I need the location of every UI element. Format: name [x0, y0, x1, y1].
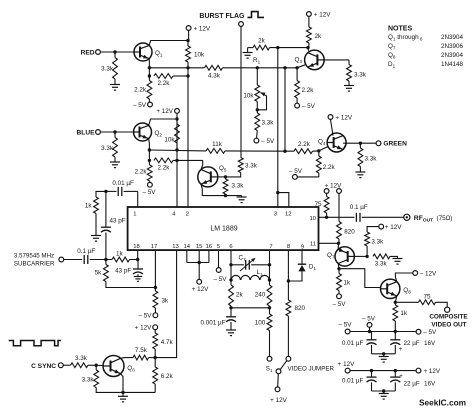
wire 10k column down to pin2	[187, 68, 189, 207]
resistor 3.3k burst to Q5	[238, 158, 243, 173]
node +12V rail cap2	[394, 369, 397, 372]
power -5V Q3	[295, 103, 300, 108]
svg-text:– 12V: – 12V	[420, 270, 437, 277]
node Q4 emitter	[359, 142, 362, 145]
svg-text:7.5k: 7.5k	[135, 347, 148, 354]
resistor 10k Q1 collector	[187, 41, 189, 47]
node tank bottom left	[229, 306, 232, 309]
capacitor 22uF -5V rail	[394, 332, 396, 340]
wire emitter bus to Q3	[223, 67, 298, 69]
svg-text:+: +	[399, 374, 403, 380]
resistor 820 to pin11	[338, 193, 340, 221]
resistor 6.2k	[154, 358, 156, 367]
wire 5k to pin17 node	[106, 282, 155, 288]
transistor Q3	[305, 50, 325, 70]
power -5V Q2	[149, 181, 151, 182]
resistor 1k vertical	[94, 197, 99, 214]
resistor 7.5k	[133, 355, 149, 360]
diode D1	[298, 263, 306, 265]
wire D1 to pin8	[288, 271, 302, 281]
svg-text:2.2k: 2.2k	[302, 87, 315, 94]
power +12V S1	[275, 387, 280, 392]
resistor 1k Q8	[394, 302, 396, 305]
resistor 3.3k below pot	[255, 113, 260, 131]
resistor 2.2k horizontal Q1	[154, 74, 173, 79]
wire L1 right column	[269, 265, 271, 285]
capacitor 0.1uF subcarrier	[64, 259, 82, 261]
wire Q3 emitter	[297, 65, 305, 68]
wire burst flag column	[240, 26, 242, 157]
node BLUE base	[113, 130, 116, 133]
wire pin16 column	[208, 250, 210, 262]
node Q5 emitter gnd line	[224, 194, 227, 197]
node pin4 column 2.2k	[175, 159, 178, 162]
svg-text:1k: 1k	[401, 310, 409, 317]
resistor 2k to +12V	[308, 16, 310, 27]
svg-text:Q1: Q1	[155, 50, 163, 58]
ground R1	[247, 48, 249, 53]
wire 3.3k to Q5 base node	[226, 173, 241, 177]
capacitor 22uF +12V rail	[394, 371, 396, 378]
svg-text:0.1 µF: 0.1 µF	[77, 248, 95, 255]
ground 1k	[95, 214, 97, 236]
svg-text:11k: 11k	[212, 141, 223, 148]
burst flag pulse symbol	[248, 12, 265, 18]
svg-text:14: 14	[184, 244, 191, 250]
capacitor 43pF pin18	[137, 260, 139, 270]
transistor Q2	[134, 123, 152, 141]
wire Q1 emitter	[148, 59, 150, 68]
wire Q5 emitter	[201, 184, 242, 195]
svg-text:2: 2	[186, 212, 189, 218]
svg-text:2.2k: 2.2k	[135, 169, 148, 176]
wire Q8 emitter	[395, 296, 397, 302]
svg-text:0.001 µF: 0.001 µF	[201, 320, 226, 327]
wire emitter bus y68	[149, 67, 204, 69]
wire pin3 column	[277, 48, 279, 207]
wire bracket pin12	[278, 193, 289, 207]
power -5V rail left	[345, 329, 350, 334]
node Q2 emitter	[148, 148, 151, 151]
wire to 1k	[96, 191, 106, 197]
wire pin6 column	[230, 250, 232, 265]
node pin11 820 Q7	[337, 242, 340, 245]
svg-text:2.2k: 2.2k	[323, 164, 336, 171]
power +12V rail left	[345, 368, 350, 373]
svg-text:+ 12V: + 12V	[156, 108, 173, 115]
wire -5V upper drop	[369, 327, 371, 331]
svg-text:BURST FLAG: BURST FLAG	[199, 13, 245, 20]
wire Q5 base	[218, 176, 226, 178]
wire Q5 collector to pin4 line	[201, 160, 203, 169]
wire Q6 collector	[121, 357, 133, 360]
wire +12V rail	[350, 370, 416, 372]
transistor Q6	[103, 356, 124, 377]
wire Q2 emitter column down	[148, 150, 150, 160]
node -5V rail cap2	[394, 330, 397, 333]
svg-text:2.2k: 2.2k	[134, 87, 147, 94]
svg-text:D1: D1	[309, 263, 317, 271]
node subcarrier	[104, 258, 107, 261]
power -5V Q4 2.2k	[297, 176, 319, 178]
svg-text:22 µF: 22 µF	[404, 381, 420, 388]
svg-text:Q5: Q5	[219, 165, 227, 173]
svg-text:– 5V: – 5V	[339, 322, 353, 329]
wire 75 to composite out	[436, 302, 448, 307]
resistor 2k R1	[248, 47, 253, 49]
svg-text:RED: RED	[81, 49, 95, 56]
svg-text:3k: 3k	[162, 298, 170, 305]
wire gnd line to 6.2k	[123, 391, 155, 393]
power +12V Q3 2k	[307, 12, 312, 17]
svg-text:12: 12	[285, 212, 292, 218]
power +12V Q1	[186, 26, 191, 31]
svg-text:3.579545 MHz: 3.579545 MHz	[14, 253, 54, 260]
resistor 10k Q2 collector	[176, 119, 178, 124]
svg-text:2N3906: 2N3906	[441, 43, 464, 50]
wire +12V down	[176, 113, 178, 119]
svg-text:2k: 2k	[258, 38, 266, 45]
wire pot to 3.3k	[256, 102, 258, 114]
node tank bottom right	[268, 306, 271, 309]
wire +12V caps to ground	[372, 390, 396, 392]
svg-text:4: 4	[172, 212, 176, 218]
power +12V rail right	[416, 368, 421, 373]
svg-text:COMPOSITE: COMPOSITE	[429, 313, 468, 320]
ground RED 3.3k	[110, 84, 120, 86]
wire +12V to Q4 collector	[331, 119, 334, 135]
svg-text:Q8: Q8	[388, 52, 396, 60]
svg-text:1k: 1k	[116, 250, 124, 257]
svg-text:9: 9	[301, 245, 304, 251]
svg-text:– 5V: – 5V	[261, 138, 275, 145]
capacitor 0.01uF -5V rail	[371, 332, 373, 340]
resistor 3.3k Q6 base	[95, 365, 97, 370]
power +12V Q7	[367, 227, 379, 232]
svg-text:2.2k: 2.2k	[158, 164, 171, 171]
wire pin7 column	[269, 250, 271, 265]
wire Q1 collector	[149, 41, 188, 46]
wire 1k to pin18 node	[130, 259, 138, 261]
power -5V pin17	[153, 313, 158, 318]
capacitor 0.01uF pin1	[106, 190, 117, 192]
svg-text:2k: 2k	[315, 33, 323, 40]
ground +12V rail caps	[383, 391, 385, 394]
wire pot top	[256, 68, 258, 85]
svg-text:3.3k: 3.3k	[232, 183, 245, 190]
wire Q7 emitter up	[337, 243, 339, 249]
svg-text:(75Ω): (75Ω)	[437, 215, 453, 222]
IC LM1889 body	[128, 207, 319, 250]
switch S1 right contact	[286, 356, 291, 361]
wire to Q4 base node	[313, 150, 319, 152]
wire pin4 column down	[176, 119, 178, 207]
node L1 left	[229, 278, 232, 281]
wire pin8 column	[287, 250, 289, 300]
resistor 1k subcarrier	[112, 257, 130, 262]
svg-text:10k: 10k	[243, 93, 254, 100]
svg-text:+ 12V: + 12V	[192, 286, 209, 293]
resistor 3.3k Q7 horizontal	[373, 254, 390, 259]
svg-text:2N3904: 2N3904	[441, 34, 464, 41]
node 10k bottom pin4 col	[175, 148, 178, 151]
ground Q5	[241, 196, 243, 197]
wire pin11 line	[319, 242, 339, 244]
wire pin12 column upper	[284, 68, 286, 151]
node pin18	[136, 258, 139, 261]
svg-text:7: 7	[269, 244, 272, 250]
wire tank bottoms	[230, 306, 232, 308]
svg-text:– 5V: – 5V	[302, 103, 316, 110]
transistor Q4	[327, 133, 346, 152]
resistor 3.3k RED input	[114, 52, 116, 58]
svg-text:Q4: Q4	[318, 139, 326, 147]
wire 3.3k to Q6 base	[88, 364, 103, 366]
wire -5V rail	[350, 331, 416, 333]
svg-text:240: 240	[255, 292, 266, 299]
ground Q4 3.3k	[355, 171, 365, 173]
node -5V caps ground	[382, 352, 385, 355]
wire 2.2k to 10k column	[173, 75, 188, 77]
node Q2 collector	[175, 117, 178, 120]
node +12V rail cap1	[370, 369, 373, 372]
svg-text:– 5V: – 5V	[214, 276, 228, 283]
node Q7 collector	[337, 267, 340, 270]
svg-text:3.3k: 3.3k	[371, 239, 384, 246]
ground 43pF pin18	[134, 276, 142, 278]
svg-text:0.01 µF: 0.01 µF	[342, 377, 364, 384]
svg-text:+ 12V: + 12V	[135, 325, 152, 332]
svg-text:6.2k: 6.2k	[161, 373, 174, 380]
resistor 3.3k BLUE input	[114, 132, 116, 138]
input terminal RED	[96, 50, 101, 55]
wire Q3 collector	[307, 48, 310, 51]
resistor 2.2k horizontal Q2	[154, 158, 173, 163]
wire 820 to S1 right	[287, 316, 289, 356]
wire pin1 column	[137, 191, 139, 207]
svg-text:S1: S1	[266, 366, 273, 374]
node L1 right	[268, 278, 271, 281]
svg-text:RF: RF	[414, 215, 423, 222]
node 2.2k tap	[148, 74, 151, 77]
node 0.01uF junction	[104, 190, 107, 193]
wire pin10 line	[319, 216, 355, 218]
node pot wiper bottom	[256, 108, 259, 111]
resistor 3.3k Q4 emitter	[359, 143, 361, 148]
wire pin9 column	[301, 250, 303, 264]
resistor 3.3k C SYNC	[63, 364, 70, 366]
svg-text:1k: 1k	[85, 203, 93, 210]
wire +12V to Q1 collector node	[188, 30, 190, 40]
resistor 3.3k Q3 base	[348, 60, 350, 65]
wire 100 to S1	[269, 331, 271, 357]
wire L1 left column	[230, 265, 232, 285]
node pin3 column top	[276, 46, 279, 49]
wire Q2 emitter 2.2k down	[148, 160, 150, 165]
svg-text:5k: 5k	[95, 269, 103, 276]
wire 11k to 2.2k	[225, 150, 294, 152]
svg-text:3.3k: 3.3k	[365, 156, 378, 163]
svg-text:C SYNC: C SYNC	[31, 363, 56, 370]
switch S1 left contact	[267, 356, 272, 361]
svg-text:10k: 10k	[194, 52, 205, 59]
svg-text:– 5V: – 5V	[333, 301, 347, 308]
wire bracket pins 14-16	[187, 262, 209, 264]
wire Q6 emitter	[121, 374, 123, 393]
wire Q4 base	[319, 146, 329, 151]
node 2.2k h Q2	[148, 159, 151, 162]
resistor 2.2k Q3 emitter	[296, 68, 298, 81]
resistor 3.3k Q5 base lower	[225, 177, 227, 179]
switch S1 wire to +12V	[277, 374, 280, 387]
svg-text:VIDEO JUMPER: VIDEO JUMPER	[288, 365, 335, 372]
svg-text:820: 820	[295, 305, 306, 312]
resistor 3.3k Q7 vertical	[366, 246, 368, 256]
node -5V rail cap1	[368, 330, 371, 333]
node Q1 emitter	[148, 66, 151, 69]
wire Q7 base right	[354, 255, 367, 257]
svg-text:75: 75	[314, 201, 322, 208]
power -5V Q1	[148, 99, 150, 102]
wire pin15 column	[198, 250, 200, 262]
node bracket to pin12	[276, 191, 279, 194]
svg-text:10: 10	[309, 216, 316, 222]
svg-text:– 5V: – 5V	[143, 189, 157, 196]
wire pin13 column	[155, 250, 176, 358]
svg-text:+ 12V: + 12V	[424, 368, 441, 375]
ground Q6	[122, 392, 124, 396]
node Q8 emitter	[394, 301, 397, 304]
svg-text:Q2: Q2	[155, 130, 163, 138]
svg-text:0.01 µF: 0.01 µF	[342, 340, 364, 347]
pot wiper arrow	[261, 93, 266, 97]
svg-text:2.2k: 2.2k	[158, 80, 171, 87]
wire -5V caps to ground	[372, 353, 396, 355]
input terminal C SYNC	[58, 363, 63, 368]
svg-text:3.3k: 3.3k	[101, 145, 114, 152]
node pin12 column top	[283, 66, 286, 69]
node 4.7k 6.2k junction	[154, 356, 157, 359]
wire Q3 base to 3.3k	[324, 59, 349, 61]
svg-text:2k: 2k	[236, 292, 244, 299]
node pin17	[154, 286, 157, 289]
ground Q7 3.3k	[390, 256, 398, 258]
switch S1 pole	[276, 369, 281, 374]
ground 0.001uF	[226, 329, 236, 331]
svg-text:75: 75	[423, 293, 431, 300]
svg-text:6: 6	[229, 244, 233, 250]
svg-text:3.3k: 3.3k	[262, 120, 275, 127]
power -12V Q8	[413, 271, 418, 276]
resistor 75 composite	[395, 301, 418, 303]
resistor 75 to pin10	[326, 193, 328, 196]
svg-text:10k: 10k	[164, 137, 175, 144]
svg-text:+ 12V: + 12V	[314, 11, 331, 18]
svg-text:17: 17	[151, 244, 158, 250]
resistor 11k	[206, 149, 225, 154]
svg-text:LM 1889: LM 1889	[210, 225, 237, 232]
resistor 1k Q7	[338, 269, 340, 274]
svg-text:+ 12V: + 12V	[270, 397, 287, 404]
svg-text:1N4148: 1N4148	[441, 61, 464, 68]
svg-text:22 µF: 22 µF	[404, 340, 420, 347]
resistor 4.7k	[154, 330, 156, 333]
power -5V pot chain	[256, 131, 259, 139]
switch S1 blade	[280, 361, 287, 370]
resistor 2.2k to Q4 base	[294, 149, 313, 154]
svg-text:0.01 µF: 0.01 µF	[112, 180, 134, 187]
svg-text:– 5V: – 5V	[289, 168, 303, 175]
svg-text:R1: R1	[253, 57, 261, 65]
power +12V Q4	[328, 115, 333, 120]
svg-text:GREEN: GREEN	[383, 141, 407, 148]
wire Q1 emitter down	[148, 68, 150, 81]
svg-text:+ 12V: + 12V	[338, 361, 355, 368]
resistor 2.2k Q2 emitter	[147, 165, 152, 181]
svg-text:3.3k: 3.3k	[82, 377, 95, 384]
svg-text:Q7: Q7	[327, 252, 335, 260]
node Q6 base	[95, 364, 98, 367]
svg-text:2.2k: 2.2k	[298, 141, 311, 148]
ground BLUE 3.3k	[110, 161, 120, 163]
resistor 2.2k Q4 base	[318, 151, 320, 156]
node pin12 column on 11k line	[283, 150, 286, 153]
power +12V Q2	[175, 109, 180, 114]
node Q3 base junction	[306, 46, 309, 49]
svg-text:L1: L1	[257, 269, 264, 277]
node on 10k column	[186, 74, 189, 77]
svg-text:+ 12V: + 12V	[385, 224, 402, 231]
svg-text:OUT: OUT	[423, 218, 433, 224]
sync waveform symbol	[9, 341, 61, 346]
node 10k pot top	[256, 66, 259, 69]
svg-text:SUBCARRIER: SUBCARRIER	[14, 260, 55, 267]
node pin7	[268, 263, 271, 266]
svg-text:VIDEO OUT: VIDEO OUT	[431, 321, 466, 328]
svg-text:4.7k: 4.7k	[161, 339, 174, 346]
svg-text:16: 16	[206, 244, 213, 250]
node pin15 bracket	[198, 261, 201, 264]
svg-text:BLUE: BLUE	[77, 129, 96, 136]
node Q6 emitter	[121, 391, 124, 394]
svg-text:11: 11	[310, 242, 316, 248]
svg-text:1k: 1k	[344, 280, 352, 287]
wire Q7 collector down	[337, 264, 340, 269]
wire pin5 column	[218, 250, 220, 268]
wire 2.2k to Q5 collector	[173, 159, 203, 161]
wire Q4 emitter to GREEN	[343, 142, 376, 144]
svg-text:100: 100	[255, 320, 266, 327]
wire Q8 collector	[395, 273, 412, 282]
wire Q7 collector to Q8 base	[339, 269, 381, 288]
wire BLUE to base	[100, 131, 133, 133]
svg-text:3.3k: 3.3k	[245, 163, 258, 170]
svg-text:Q3: Q3	[295, 57, 303, 65]
power +12V 75 ohm	[324, 189, 329, 194]
wire Q2 emitter	[148, 139, 151, 150]
resistor 100	[269, 308, 271, 314]
capacitor 0.1uF RF	[355, 213, 357, 222]
resistor 2k tank	[229, 285, 234, 306]
ground Q3 3.3k	[344, 85, 354, 87]
transistor Q1	[134, 43, 152, 61]
input terminal BURST FLAG	[239, 22, 244, 27]
svg-text:18: 18	[133, 244, 140, 250]
capacitor 43pF subcarrier column	[105, 191, 107, 227]
resistor 820 pin8	[286, 300, 291, 316]
transistor Q5	[198, 167, 218, 187]
svg-text:+: +	[399, 347, 403, 353]
